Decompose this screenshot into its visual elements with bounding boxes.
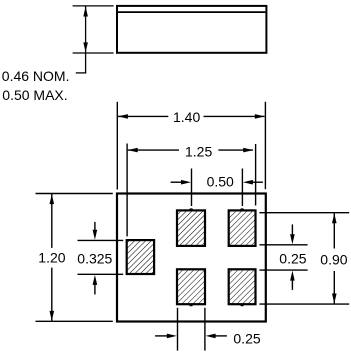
svg-text:0.50 MAX.: 0.50 MAX. [2,87,67,103]
svg-text:0.25: 0.25 [279,250,306,266]
svg-text:0.50: 0.50 [207,173,234,189]
svg-text:0.90: 0.90 [320,252,347,268]
svg-text:1.40: 1.40 [173,109,200,125]
svg-text:0.325: 0.325 [77,250,112,266]
svg-text:0.25: 0.25 [233,330,260,346]
svg-text:0.46 NOM.: 0.46 NOM. [2,68,70,84]
svg-text:1.25: 1.25 [185,144,212,160]
svg-text:1.20: 1.20 [38,250,65,266]
